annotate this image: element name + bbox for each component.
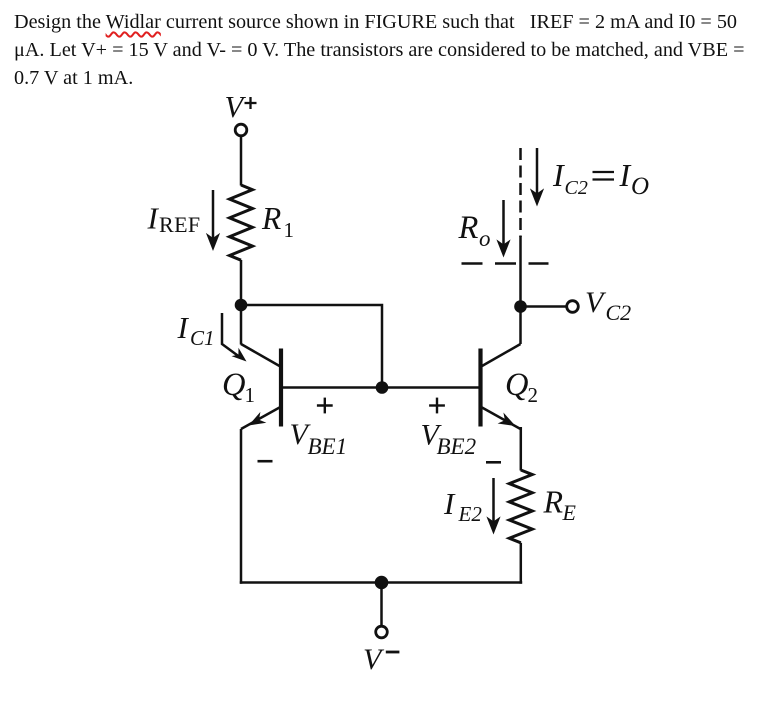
junction base node — [376, 381, 389, 394]
svg-text:E: E — [562, 500, 577, 525]
svg-text:R: R — [261, 201, 281, 236]
svg-text:R: R — [543, 484, 564, 520]
svg-text:E2: E2 — [458, 502, 483, 526]
svg-text:BE2: BE2 — [437, 434, 477, 459]
wire V+ to R1 — [240, 136, 243, 186]
svg-text:1: 1 — [284, 218, 295, 242]
current arrow IREF — [206, 190, 220, 251]
label IC2 = IO — [552, 157, 649, 200]
wire V- stub — [380, 583, 383, 627]
svg-text:2: 2 — [528, 383, 539, 407]
label Q2 — [505, 367, 538, 407]
svg-text:I: I — [619, 157, 632, 193]
wire bottom rail — [240, 581, 522, 584]
svg-text:I: I — [147, 201, 160, 236]
transistor Q2 — [481, 344, 521, 429]
svg-text:1: 1 — [245, 383, 256, 407]
svg-text:C1: C1 — [190, 326, 215, 350]
junction V- node — [375, 576, 389, 590]
junction node A (collector of Q1) — [235, 299, 248, 312]
svg-text:I: I — [552, 157, 565, 193]
label Ro — [458, 210, 491, 251]
svg-text:O: O — [631, 173, 649, 200]
label V+ — [225, 90, 257, 124]
current arrow Ro — [496, 200, 510, 258]
label + VBE1 — [258, 398, 348, 462]
svg-text:C2: C2 — [565, 177, 588, 199]
wire base rail — [281, 386, 481, 389]
svg-text:V: V — [225, 90, 247, 124]
label RE — [543, 484, 577, 526]
label IC1 — [177, 310, 215, 350]
label IE2 — [443, 486, 482, 526]
problem statement text — [14, 9, 782, 92]
resistor R1 — [230, 185, 253, 260]
wire Q2 collector up — [519, 236, 522, 344]
wire Q2 emitter to RE — [520, 427, 523, 471]
label V- — [363, 643, 399, 676]
label + VBE2 — [421, 398, 502, 463]
svg-text:C2: C2 — [606, 300, 632, 325]
svg-text:V: V — [363, 643, 385, 676]
svg-text:R: R — [458, 210, 479, 246]
svg-text:REF: REF — [159, 212, 201, 237]
node V- terminal — [376, 626, 388, 638]
dashed line Ro vertical — [519, 148, 522, 237]
svg-text:Q: Q — [222, 367, 245, 403]
wire R1 to Q1 collector — [240, 260, 243, 345]
node VC2 terminal — [567, 301, 579, 313]
label Q1 — [222, 367, 255, 407]
svg-text:BE1: BE1 — [308, 434, 348, 459]
node V+ terminal — [235, 124, 247, 136]
svg-text:Q: Q — [505, 367, 528, 403]
wire node A to base tie — [241, 305, 382, 388]
current arrow IC1 — [222, 313, 247, 362]
wire to VC2 terminal — [521, 305, 568, 308]
label IREF — [147, 201, 201, 238]
wire Q1 emitter down — [240, 429, 243, 584]
label VC2 — [585, 286, 631, 325]
svg-text:o: o — [479, 226, 491, 251]
dashed line Ro horizontal — [462, 262, 549, 265]
wire RE to bottom rail — [520, 543, 523, 584]
resistor RE — [509, 470, 532, 543]
current arrow IC2 — [530, 148, 544, 207]
svg-text:V: V — [585, 286, 607, 319]
current arrow IE2 — [486, 478, 500, 535]
transistor Q1 — [241, 344, 281, 429]
svg-text:I: I — [443, 486, 456, 521]
svg-text:I: I — [177, 310, 190, 345]
label R1 — [261, 201, 294, 242]
junction VC2 node — [514, 300, 527, 313]
